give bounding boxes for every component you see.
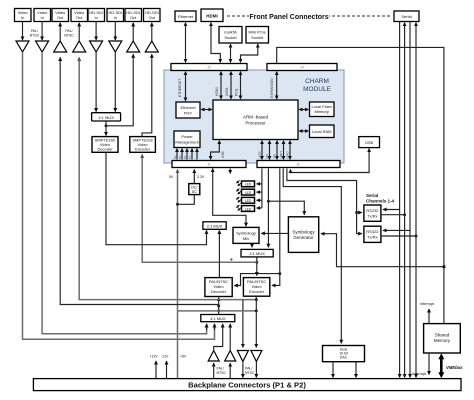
Ethernet PHY box — [176, 102, 200, 118]
msATA Socket box — [219, 27, 242, 44]
junction dot enc y311 — [255, 309, 258, 312]
svg-text:Backplane Connectors (P1 & P2): Backplane Connectors (P1 & P2) — [188, 381, 306, 390]
svg-text:Local RAM: Local RAM — [312, 129, 332, 134]
wire branch to RS232 — [357, 212, 362, 214]
wire J3 to ARM (PCIe) — [240, 72, 242, 99]
svg-text:J4: J4 — [300, 66, 304, 70]
connector bar J3 — [171, 64, 247, 71]
svg-text:PAL/: PAL/ — [217, 367, 224, 371]
svg-text:J1: J1 — [207, 163, 211, 167]
SMPTE292 Video Decoder box — [92, 137, 118, 153]
wire LED bus to LED3 — [257, 199, 262, 201]
connector bar J2 — [257, 161, 340, 168]
PAL/NTSC Video Encoder box — [243, 278, 269, 297]
svg-text:USB: USB — [365, 140, 374, 145]
wire LED bus to LED2 — [257, 191, 262, 193]
svg-text:Generator: Generator — [293, 235, 314, 240]
wire J1 to symbology mix — [213, 169, 246, 227]
junction dot enc y300 — [255, 298, 258, 301]
svg-text:Out: Out — [57, 15, 64, 20]
wire branch to PAL decoder right — [234, 274, 279, 286]
svg-text:Shared: Shared — [435, 333, 450, 338]
wire ARM to Local Flash — [299, 109, 308, 111]
wires ARM to J2 (5 lines) — [258, 141, 291, 160]
svg-text:3V: 3V — [178, 156, 182, 159]
svg-text:NTSC: NTSC — [30, 34, 40, 38]
junction dot shared memory tee — [442, 265, 445, 268]
svg-text:J2: J2 — [296, 163, 300, 167]
wire HDMI to J3 — [211, 23, 220, 63]
wire T6 to mux — [114, 52, 116, 112]
wire J3 to ARM (HDMI) — [220, 72, 222, 99]
wire J3 to Ethernet PHY — [185, 72, 187, 101]
2:1 MUX top box — [92, 113, 121, 121]
junction dot y311 — [217, 309, 220, 312]
label PAL/NTSC (video out pair) — [64, 29, 74, 38]
svg-text:Channels 1-4: Channels 1-4 — [366, 199, 395, 204]
Shared Memory box — [424, 324, 461, 353]
RS232 Tx/Rx box — [364, 205, 381, 221]
wire T4 to box4 — [78, 23, 80, 41]
svg-text:Interrupt: Interrupt — [412, 372, 427, 376]
wire branch to symbology generator top — [268, 201, 304, 215]
wire T3 to box3 — [59, 23, 61, 41]
wire T8 to box8 — [151, 23, 153, 41]
wire video-in1 to 4:1 mux — [23, 52, 215, 339]
wire SMPTE encoder to T8 — [142, 54, 152, 136]
svg-text:2V: 2V — [183, 156, 187, 159]
CHARM module body — [164, 70, 344, 163]
wire J2 to DAC — [283, 169, 341, 344]
svg-text:Memory: Memory — [314, 109, 328, 114]
wire box2 to T2 — [41, 22, 43, 41]
wire amp4 to backplane — [255, 362, 257, 378]
svg-text:Serial: Serial — [366, 193, 378, 198]
svg-text:Symbology: Symbology — [292, 230, 315, 235]
connector bar J1 — [172, 161, 246, 168]
LED 3 light rays — [236, 197, 239, 200]
wire 5V trunk J1 to backplane — [177, 170, 179, 379]
svg-text:+5V: +5V — [180, 355, 187, 359]
connector box HD-SDI Out 1 — [125, 9, 142, 22]
svg-text:1V: 1V — [188, 156, 192, 159]
backplane bar — [33, 379, 461, 391]
svg-text:Memory: Memory — [434, 338, 451, 343]
wire serial3 to RS422 — [383, 229, 410, 231]
wire LED bus to LED4 — [257, 207, 262, 209]
svg-text:+12V: +12V — [150, 355, 159, 359]
svg-text:NTSC: NTSC — [64, 34, 74, 38]
svg-text:-12V: -12V — [161, 355, 169, 359]
connector box HD-SDI In 1 — [88, 9, 105, 22]
svg-text:DC: DC — [192, 190, 198, 194]
svg-text:Out: Out — [76, 15, 83, 20]
wire J2 to symbology generator and 2:1 mux — [267, 169, 269, 248]
svg-text:Decoder: Decoder — [97, 147, 113, 152]
svg-text:2:1 MUX: 2:1 MUX — [207, 224, 223, 229]
svg-text:In: In — [95, 15, 98, 20]
bp input amp 2 (up triangle) — [225, 351, 236, 362]
wire gray y311 — [178, 310, 257, 312]
svg-text:In: In — [114, 15, 117, 20]
connector box Ethernet — [175, 11, 196, 22]
junction dot dcdc tee — [176, 203, 179, 206]
svg-text:SATA: SATA — [225, 87, 229, 96]
LED box 3 — [242, 197, 255, 203]
wire mux2 out to PAL encoder — [256, 257, 258, 276]
serial trunk line 3 — [409, 22, 411, 378]
Dual 10 bit DAC box — [323, 346, 365, 362]
LED 1 light rays — [236, 180, 239, 183]
buffer amp T7 (hdsdi out 1) — [127, 41, 140, 52]
wire video-out2 feed to bp amp — [79, 57, 256, 299]
wire bp amp2 to 4:1 mux — [229, 324, 231, 350]
wire J4 to ARM (expansion) — [276, 72, 278, 99]
svg-text:EXPANSION: EXPANSION — [270, 78, 274, 98]
svg-text:Decoder: Decoder — [211, 289, 227, 294]
buffer amp T8 (hdsdi out 2) — [145, 41, 158, 52]
svg-text:In: In — [21, 15, 24, 20]
svg-text:LVDS: LVDS — [258, 151, 262, 158]
DC/DC converter box — [189, 184, 200, 195]
svg-text:Mix: Mix — [243, 236, 249, 241]
wire symmix to mux2 — [251, 243, 253, 247]
wire DAC out 1 — [332, 362, 334, 378]
wire DC/DC to J1 — [193, 170, 195, 184]
Symbology Mix box — [233, 227, 259, 243]
svg-text:Symbology: Symbology — [236, 231, 256, 236]
svg-text:ARM -based: ARM -based — [243, 115, 269, 120]
svg-text:Serial: Serial — [401, 14, 411, 19]
svg-text:J3: J3 — [207, 66, 211, 70]
wire RS232 to serial2 — [381, 214, 405, 216]
junction dot encoder feed tee — [278, 272, 281, 275]
svg-text:Mini PCIe: Mini PCIe — [249, 30, 267, 35]
svg-text:SPI: SPI — [273, 154, 277, 159]
svg-text:CHARM: CHARM — [305, 78, 329, 85]
wire 4:1 mux out to PAL decoder — [218, 298, 220, 315]
bp output amp 4 (down triangle) — [251, 351, 262, 362]
wire mux2 out to SMPTE encoder — [142, 154, 257, 262]
svg-text:Power: Power — [181, 134, 193, 139]
wire LED bus to LED1 — [257, 183, 262, 185]
wire SMPTE decoder out to 2:1 mux b — [106, 152, 207, 244]
svg-text:Processor: Processor — [245, 121, 266, 126]
wire backplane to amp2 — [229, 363, 231, 378]
wire shared-memory line to symgen right — [321, 234, 444, 267]
buffer amp T1 (video in 1) — [16, 41, 29, 52]
wire J2 to PAL encoder right — [272, 169, 280, 286]
wire video-in2 to 4:1 mux — [42, 52, 207, 334]
svg-text:5V: 5V — [173, 156, 177, 159]
wire serial1 to RS232 — [383, 209, 400, 211]
junction dot rs422 out — [415, 235, 418, 238]
svg-text:MODULE: MODULE — [303, 86, 331, 93]
wire backplane to amp1 — [213, 363, 215, 378]
junction dot mux2 out — [255, 261, 258, 264]
junction dot y306 — [217, 304, 220, 307]
Power Management box — [174, 131, 200, 148]
svg-text:VMEbus: VMEbus — [446, 365, 463, 370]
svg-text:PAL/: PAL/ — [245, 367, 252, 371]
svg-text:2:1 MUX: 2:1 MUX — [98, 115, 114, 120]
svg-text:In: In — [41, 15, 44, 20]
svg-text:Out: Out — [149, 15, 156, 20]
buffer amp T4 (video out 2) — [73, 41, 86, 52]
wire mux out to SMPTE decoder — [105, 121, 107, 136]
wire interrupt down — [428, 353, 430, 375]
junction dot rs232 out — [403, 213, 406, 216]
svg-text:msATA: msATA — [224, 30, 237, 35]
label CHARM MODULE — [303, 78, 331, 93]
connector box HD-SDI Out 2 — [144, 9, 161, 22]
wire amp3 to backplane — [242, 362, 244, 378]
svg-text:GPIO: GPIO — [286, 151, 290, 159]
serial trunk line 2 — [404, 23, 406, 378]
wire J2 to RS232/RS422 feed — [287, 169, 362, 234]
label PAL/NTSC bottom left — [217, 367, 227, 376]
wire ARM to J1 (usb jog) — [211, 141, 220, 160]
svg-text:Ethernet: Ethernet — [178, 14, 194, 19]
bp input amp 1 (up triangle) — [208, 351, 219, 362]
wire decoder top to mux b — [218, 230, 220, 277]
wire J2 to LED bus — [261, 169, 263, 209]
wire Ethernet to J3 — [185, 23, 187, 63]
power stub +12V — [155, 361, 157, 378]
svg-text:Socket: Socket — [224, 35, 237, 40]
svg-text:LED: LED — [245, 183, 252, 187]
wire box6 to T6 — [114, 22, 116, 41]
connector box Video In 1 — [15, 9, 32, 22]
wire J1 stub down — [229, 169, 231, 174]
svg-text:Tx/Rx: Tx/Rx — [367, 235, 377, 240]
svg-text:Encoder: Encoder — [135, 147, 151, 152]
wire msATA to J3 — [230, 44, 232, 62]
junction dot mux out — [105, 124, 108, 127]
svg-text:5V: 5V — [169, 175, 174, 179]
wire symgen to symmix — [261, 232, 288, 234]
junction dot rs232 tee — [355, 211, 358, 214]
buffer amp T6 (hdsdi in 2) — [109, 41, 122, 52]
front panel connectors dashed line — [227, 15, 392, 17]
wire box5 to T5 — [95, 22, 97, 41]
buffer amp T3 (video out 1) — [54, 41, 67, 52]
LED box 1 — [242, 181, 255, 187]
wire Mini PCIe to J3 — [241, 44, 258, 62]
svg-text:Ethernet: Ethernet — [180, 105, 196, 110]
svg-text:PAL/: PAL/ — [65, 29, 72, 33]
serial trunk line 1 — [399, 22, 401, 378]
wire USB to J2 — [291, 149, 370, 173]
svg-text:HDMI: HDMI — [206, 14, 218, 19]
connector bar J4 — [267, 64, 337, 71]
connector box Video Out 2 — [71, 9, 88, 22]
svg-text:ETHERNET: ETHERNET — [178, 79, 182, 97]
svg-text:Out: Out — [130, 15, 137, 20]
svg-text:RS422: RS422 — [366, 229, 379, 234]
svg-text:4:1 MUX: 4:1 MUX — [210, 316, 226, 321]
svg-text:LED: LED — [245, 207, 252, 211]
svg-text:DC/: DC/ — [191, 186, 197, 190]
wire J3 to ARM (SATA) — [230, 72, 232, 99]
connector box Video In 2 — [34, 9, 51, 22]
svg-text:Socket: Socket — [251, 35, 264, 40]
connector box HDMI — [201, 9, 223, 22]
footnote blue asterisk — [230, 258, 232, 260]
svg-text:Encoder: Encoder — [249, 289, 265, 294]
svg-text:Tx/Rx: Tx/Rx — [367, 214, 377, 219]
LED box 4 — [242, 206, 255, 212]
junction dot symgen feed — [267, 200, 270, 203]
Local RAM box — [310, 125, 335, 138]
svg-text:NTSC: NTSC — [217, 371, 227, 375]
svg-text:UART: UART — [279, 151, 283, 159]
2:1 MUX symbology box — [241, 249, 273, 257]
wire T7 to box7 — [132, 23, 134, 41]
wire interrupt up — [428, 309, 430, 324]
buffer amp T2 (video in 2) — [36, 41, 49, 52]
svg-text:I2S: I2S — [265, 154, 269, 158]
VMEbus thick arrow — [440, 358, 443, 375]
serial trunk line 4 — [415, 23, 417, 378]
PAL/NTSC Video Decoder box — [205, 278, 232, 297]
power stub -12V — [166, 361, 168, 378]
connector box Serial — [394, 11, 419, 22]
bp output amp 3 (down triangle) — [237, 351, 248, 362]
4:1 MUX box — [201, 315, 235, 322]
svg-text:2:1 MUX: 2:1 MUX — [249, 251, 265, 256]
svg-text:RS232: RS232 — [366, 208, 379, 213]
wire ARM to Local RAM — [299, 130, 308, 132]
ARM-based Processor box — [213, 100, 298, 140]
LED 2 light rays — [236, 189, 239, 192]
LED 4 light rays — [236, 205, 239, 208]
buffer amp T5 (hdsdi in 1) — [90, 41, 103, 52]
wire J4 up to shared-memory trunk — [277, 47, 444, 323]
wires Power Management to J1 (5 lines) — [173, 149, 197, 160]
svg-text:Management: Management — [175, 140, 199, 145]
svg-text:DAC: DAC — [340, 356, 348, 360]
wire mux out branch to T7 — [106, 54, 133, 126]
wire drop to down-amp T9c — [242, 300, 244, 348]
Symbology Generator box — [288, 217, 318, 253]
svg-text:PAL/: PAL/ — [31, 29, 38, 33]
svg-text:NTSC: NTSC — [245, 371, 255, 375]
label PAL/NTSC (video in pair) — [30, 29, 40, 38]
wire box1 to T1 — [22, 22, 24, 41]
Mini PCIe Socket box — [246, 27, 269, 44]
wire DC/DC to 5V trunk — [178, 195, 195, 205]
wire PHY to ARM — [201, 109, 212, 111]
USB box — [359, 137, 380, 148]
label PAL/NTSC bottom right — [245, 367, 255, 376]
svg-text:USB: USB — [221, 151, 225, 158]
LED box 2 — [242, 189, 255, 195]
wire T5 to mux — [95, 52, 97, 112]
SMPTE292 Video Encoder box — [130, 137, 156, 153]
svg-text:Front Panel Connectors: Front Panel Connectors — [249, 14, 328, 21]
connector box Video Out 1 — [52, 9, 69, 22]
svg-text:HDMI: HDMI — [215, 87, 219, 96]
svg-text:PCIe: PCIe — [235, 88, 239, 96]
svg-text:LED: LED — [245, 199, 252, 203]
wire DAC out 2 — [355, 362, 357, 378]
2:1 MUX b box — [203, 222, 226, 230]
svg-text:3.3V: 3.3V — [197, 175, 205, 179]
svg-text:PHY: PHY — [184, 111, 193, 116]
svg-text:Interrupt: Interrupt — [420, 302, 435, 306]
wire PAL encoder down — [255, 296, 257, 347]
Local Flash Memory box — [310, 102, 335, 117]
svg-text:LED: LED — [245, 191, 252, 195]
wire RS422 to serial4 — [381, 235, 416, 237]
RS422 Tx/Rx box — [364, 226, 381, 242]
wire video-out1 feed — [60, 57, 219, 304]
label Serial Channels 1-4 — [366, 193, 395, 204]
connector box HD-SDI In 2 — [107, 9, 124, 22]
wire bp amp1 to 4:1 mux — [214, 324, 223, 350]
